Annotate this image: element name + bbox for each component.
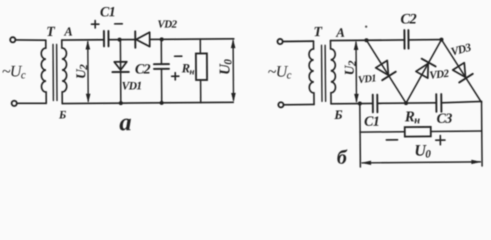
wire diagonal VD3 (b) <box>441 39 481 103</box>
transformer T1 core <box>53 44 57 100</box>
diode VD3 (b) <box>453 63 473 83</box>
capacitor C2 wire bottom <box>160 69 162 103</box>
minus sign output (b) <box>386 139 397 141</box>
wire terminal-top to primary (b) <box>283 40 314 42</box>
speckle dot <box>365 25 367 27</box>
label T (circuit a) <box>46 25 56 40</box>
label VD3 (b) <box>450 42 473 59</box>
node junction top-right (b) <box>439 38 443 42</box>
svg-text:U0: U0 <box>414 143 431 161</box>
svg-text:A: A <box>335 25 345 40</box>
transformer T2 core <box>322 45 326 101</box>
voltage arrow U2 (circuit b) <box>354 41 359 103</box>
svg-text:VD2: VD2 <box>429 68 450 82</box>
svg-text:Rн: Rн <box>181 61 195 76</box>
svg-text:Б: Б <box>58 109 66 121</box>
node junction C1/VD1/VD2 <box>118 38 122 42</box>
resistor Rn label (circuit a) <box>181 61 195 76</box>
transformer T2 primary winding <box>309 41 314 104</box>
caption b <box>337 147 348 169</box>
resistor Rn wire top <box>199 39 201 53</box>
svg-text:U2: U2 <box>73 64 90 79</box>
wire diagonal VD2 (b) <box>405 40 442 104</box>
svg-text:C1: C1 <box>100 5 115 20</box>
wire top rail C1 to VD2 <box>108 39 135 41</box>
capacitor C3 label (b) <box>437 112 453 127</box>
resistor Rn body (circuit a) <box>196 53 207 80</box>
svg-text:U2: U2 <box>342 60 359 75</box>
wire lower rail right of Rn (b) <box>431 130 482 132</box>
wire terminal-bottom to primary (b) <box>284 103 314 105</box>
diode VD2 (b) <box>416 59 436 79</box>
label VD1 (circuit a) <box>122 80 142 92</box>
wire diagonal VD1 (b) <box>366 40 406 104</box>
wire terminal-bottom to primary <box>17 102 46 104</box>
label VD2 (circuit a) <box>157 19 177 31</box>
wire bottom rail <box>62 102 233 103</box>
svg-text:б: б <box>337 147 348 169</box>
input terminal top (circuit a) <box>10 37 15 42</box>
capacitor C2 wire top <box>160 39 162 64</box>
minus sign of C2 <box>175 55 182 57</box>
input terminal top (circuit b) <box>277 39 282 44</box>
svg-text:T: T <box>46 25 56 40</box>
transformer T1 secondary winding <box>62 40 67 104</box>
transformer T2 secondary winding <box>330 41 335 104</box>
svg-text:C2: C2 <box>400 11 416 27</box>
wire top rail A to C2 <box>330 39 404 42</box>
label B node (circuit a) <box>58 109 66 121</box>
capacitor C1 plates <box>104 31 109 46</box>
wire lower rail left of Rn (b) <box>360 131 405 133</box>
capacitor C2 label <box>135 62 151 77</box>
source label ~Uc (circuit b) <box>268 64 292 82</box>
diode VD2 (circuit a) <box>135 31 150 48</box>
svg-text:VD3: VD3 <box>450 42 473 59</box>
plus sign output (b) <box>436 135 445 144</box>
capacitor C2 plates <box>154 64 169 69</box>
capacitor C2 label (b) <box>400 11 416 27</box>
capacitor C2 plates (b) <box>404 30 408 49</box>
wire right vertical to lower rail (b) <box>481 101 484 165</box>
svg-text:T: T <box>313 25 323 40</box>
capacitor C1 label <box>100 5 115 20</box>
minus sign of C1 <box>115 23 123 25</box>
label U0 (b) <box>414 143 431 161</box>
input terminal bottom (circuit b) <box>278 102 283 107</box>
label A node (circuit b) <box>335 25 345 40</box>
plus sign of C1 <box>91 20 98 27</box>
svg-text:U0: U0 <box>217 59 234 75</box>
transformer T1 primary winding <box>41 40 46 103</box>
node junction C2 top <box>160 37 164 41</box>
input terminal bottom (circuit a) <box>12 101 17 106</box>
wire bottom rail C3 to corner <box>441 101 481 102</box>
diode VD1 <box>112 62 128 72</box>
plus sign of C2 <box>172 73 179 80</box>
voltage arrow U2 (circuit a) <box>85 40 90 102</box>
wire bottom rail C1 to node <box>377 102 436 105</box>
diode VD1 wire <box>119 40 121 103</box>
wire top rail C2 to node <box>408 39 441 41</box>
wire bottom rail B to C1 <box>331 102 373 104</box>
label U2 (circuit b) <box>342 60 359 75</box>
svg-text:C1: C1 <box>364 115 379 130</box>
wire left vertical to lower rail (b) <box>359 104 362 167</box>
capacitor C1 plates (b) <box>373 95 378 113</box>
source label ~Uc (circuit a) <box>2 63 26 81</box>
node junction bottom-middle (b) <box>404 101 408 105</box>
voltage arrow U0 (b) <box>361 160 481 165</box>
svg-text:~Uc: ~Uc <box>2 63 26 81</box>
label T (circuit b) <box>313 25 323 40</box>
node junction bottom-left branch (b) <box>358 102 362 106</box>
caption a <box>119 109 131 136</box>
node junction VD1 bottom <box>119 101 123 105</box>
wire terminal-top to primary <box>15 39 45 42</box>
svg-text:C3: C3 <box>437 112 453 127</box>
svg-text:VD2: VD2 <box>157 19 177 31</box>
diode VD1 (b) <box>376 60 396 80</box>
label U2 (circuit a) <box>73 64 90 79</box>
resistor Rn wire bottom <box>200 80 202 103</box>
label B node (circuit b) <box>333 107 342 122</box>
svg-text:VD1: VD1 <box>357 73 377 86</box>
svg-text:Б: Б <box>333 107 342 122</box>
label A node (circuit a) <box>63 25 72 39</box>
svg-text:VD1: VD1 <box>122 80 142 92</box>
capacitor C1 label (b) <box>364 115 379 130</box>
capacitor C3 plates (b) <box>436 94 441 112</box>
svg-text:A: A <box>63 25 72 39</box>
svg-text:C2: C2 <box>135 62 151 77</box>
svg-text:а: а <box>119 109 131 136</box>
resistor Rn label (b) <box>404 109 421 126</box>
wire top rail A to C1 <box>62 39 104 41</box>
svg-text:~Uc: ~Uc <box>268 64 292 82</box>
label VD2 (b) <box>429 68 450 82</box>
node junction top-left (b) <box>364 38 368 42</box>
svg-text:Rн: Rн <box>404 109 421 126</box>
wire top rail VD2 to right corner <box>150 38 234 41</box>
resistor Rn body (b) <box>405 127 431 137</box>
label VD1 (b) <box>357 73 377 86</box>
label U0 (circuit a) <box>217 59 234 75</box>
node junction C2 bottom <box>160 101 164 105</box>
voltage arrow U0 (circuit a) <box>231 39 236 102</box>
